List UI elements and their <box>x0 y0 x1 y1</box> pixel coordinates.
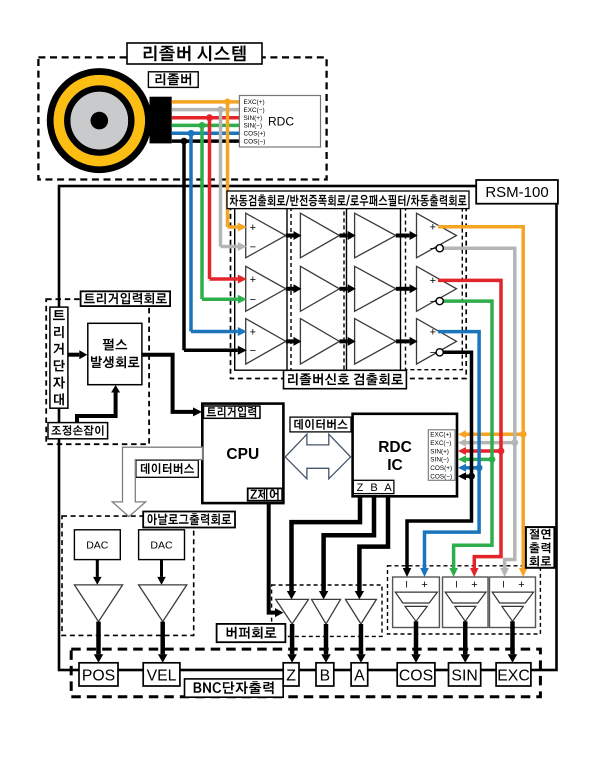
svg-text:−: − <box>430 347 436 359</box>
svg-text:−: − <box>250 241 256 253</box>
svg-text:Z: Z <box>286 667 296 684</box>
svg-text:B: B <box>320 667 331 684</box>
svg-text:A: A <box>354 667 365 684</box>
svg-text:EXC: EXC <box>497 667 529 684</box>
svg-text:RSM-100: RSM-100 <box>485 184 548 201</box>
svg-text:SIN: SIN <box>451 667 477 684</box>
svg-text:+: + <box>518 579 524 591</box>
svg-text:SIN(−): SIN(−) <box>430 457 449 464</box>
svg-text:I: I <box>455 580 458 590</box>
svg-text:−: − <box>250 345 256 357</box>
svg-text:COS(+): COS(+) <box>430 465 452 472</box>
svg-text:+: + <box>471 579 477 591</box>
svg-text:+: + <box>250 222 256 234</box>
svg-text:+: + <box>430 326 436 338</box>
svg-text:CPU: CPU <box>226 446 259 463</box>
svg-text:EXC(+): EXC(+) <box>244 99 265 106</box>
svg-text:COS(+): COS(+) <box>244 131 266 138</box>
svg-text:DAC: DAC <box>150 540 173 552</box>
svg-text:SIN(−): SIN(−) <box>244 123 263 130</box>
svg-text:+: + <box>421 579 427 591</box>
svg-text:A: A <box>384 482 392 494</box>
svg-text:SIN(+): SIN(+) <box>244 115 263 122</box>
svg-text:I: I <box>405 580 408 590</box>
svg-text:+: + <box>250 274 256 286</box>
svg-text:B: B <box>370 482 377 494</box>
svg-text:−: − <box>430 296 436 308</box>
svg-text:VEL: VEL <box>147 667 177 684</box>
svg-text:EXC(−): EXC(−) <box>244 107 265 114</box>
svg-text:IC: IC <box>387 457 403 474</box>
svg-text:COS: COS <box>399 667 433 684</box>
svg-text:SIN(+): SIN(+) <box>430 448 449 455</box>
svg-text:+: + <box>430 222 436 234</box>
svg-text:−: − <box>250 294 256 306</box>
svg-text:DAC: DAC <box>86 540 109 552</box>
svg-text:+: + <box>250 326 256 338</box>
svg-text:Z: Z <box>357 482 364 494</box>
svg-text:COS(−): COS(−) <box>244 138 266 145</box>
svg-text:EXC(+): EXC(+) <box>430 432 451 439</box>
svg-text:RDC: RDC <box>378 439 412 456</box>
svg-text:RDC: RDC <box>268 115 294 129</box>
svg-text:I: I <box>502 580 505 590</box>
svg-text:POS: POS <box>82 667 115 684</box>
svg-text:EXC(−): EXC(−) <box>430 440 451 447</box>
svg-text:−: − <box>430 243 436 255</box>
svg-text:+: + <box>430 275 436 287</box>
svg-text:COS(−): COS(−) <box>430 474 452 481</box>
